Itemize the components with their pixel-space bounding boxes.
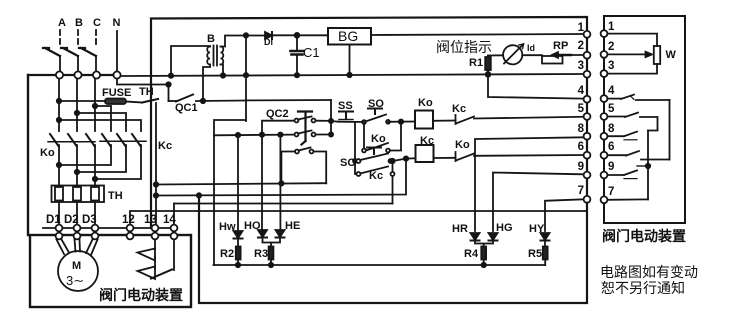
svg-text:HR: HR — [452, 223, 468, 235]
valve actuator right box outline — [604, 16, 685, 223]
lamp diode HR — [471, 233, 480, 240]
wire fuse to TH contact — [126, 102, 142, 103]
contactor Kc main contact 1 — [102, 134, 111, 146]
interlock contact Ko (NC) — [455, 152, 457, 161]
transformer B secondary winding — [221, 47, 224, 65]
linkage bar Ko group — [48, 141, 95, 143]
wire TH down to terminal 13 column — [155, 103, 157, 225]
svg-text:2: 2 — [578, 40, 584, 52]
terminal L8 — [584, 133, 591, 140]
wire Kc output 2 merge — [77, 145, 126, 172]
phase B incoming dashed lead — [77, 30, 79, 44]
wire lamp feed line — [214, 134, 295, 137]
terminal D2 upper — [74, 225, 81, 232]
diode Di — [265, 32, 272, 39]
svg-text:13: 13 — [144, 214, 157, 226]
wire link bus L1 — [156, 183, 326, 184]
wire SC output to Kc coil — [393, 158, 416, 161]
svg-text:Kc: Kc — [369, 170, 383, 182]
left strip numbers — [578, 22, 585, 197]
svg-text:8: 8 — [578, 123, 585, 135]
wire Kc output 1 merge — [59, 145, 111, 165]
phase C incoming dashed lead — [95, 30, 97, 44]
wire selfhold right riser to L3 — [392, 161, 394, 203]
node HO bracket corner — [260, 133, 264, 137]
capacitor C1 — [296, 37, 298, 50]
limit switch row 4 — [608, 98, 622, 100]
svg-text:FUSE: FUSE — [102, 87, 131, 99]
svg-text:Ko: Ko — [455, 139, 470, 151]
svg-text:8: 8 — [608, 123, 615, 135]
main control cabinet box outline — [151, 17, 587, 303]
switch pole stubs — [60, 56, 96, 71]
wire terminal 14 riser — [173, 204, 175, 225]
svg-text:阀门电动装置: 阀门电动装置 — [99, 287, 183, 303]
wire N to QC1 — [117, 79, 169, 101]
svg-text:HE: HE — [285, 220, 300, 232]
phase A incoming dashed lead — [59, 30, 61, 44]
svg-text:HY: HY — [529, 223, 545, 235]
node L2 riser join — [404, 156, 408, 160]
plug line upper terminal row — [43, 227, 177, 229]
potentiometer W body — [654, 46, 660, 64]
svg-text:5: 5 — [608, 103, 615, 115]
fuse FUSE — [105, 99, 126, 105]
switch QC2 pole1 contacts — [295, 119, 299, 123]
node phase A fuse tap — [57, 99, 61, 103]
wire terminal 9 feed and HG drop — [493, 173, 583, 232]
motor M leads — [57, 240, 98, 256]
wire HO lamp drop — [261, 135, 263, 229]
linkage bar Kc group — [100, 140, 146, 142]
wire RP to terminal 2 — [563, 54, 584, 56]
resistor R4 — [481, 247, 486, 260]
node L2 bottom drop — [197, 193, 201, 197]
wire primary bottom lead — [203, 65, 210, 102]
terminal R2 — [601, 51, 608, 58]
svg-text:D2: D2 — [64, 214, 79, 226]
svg-text:恕不另行通知: 恕不另行通知 — [601, 280, 685, 296]
potentiometer W wiper from terminal 2 — [608, 53, 647, 55]
wire terminal 4 feed — [488, 74, 583, 98]
wire SO output — [388, 121, 415, 123]
node crossover C — [93, 104, 97, 108]
svg-text:Di: Di — [264, 37, 273, 47]
svg-text:阀位指示: 阀位指示 — [436, 39, 492, 55]
node Hw tap — [236, 133, 240, 137]
svg-text:9: 9 — [578, 161, 584, 173]
contactor Kc main contact 2 — [117, 134, 126, 146]
limit switch row 8 — [608, 135, 625, 137]
terminal L4 — [584, 96, 591, 103]
node R4 rail — [482, 263, 486, 267]
lamp diode HE — [276, 230, 285, 237]
svg-text:1: 1 — [578, 22, 585, 34]
terminal L5 — [584, 113, 591, 120]
pushbutton SO open — [368, 109, 382, 115]
wire secondary bottom lead — [221, 65, 224, 76]
selfhold contact end circles — [362, 149, 366, 153]
bus wire through supply terminals — [28, 74, 113, 76]
svg-text:RP: RP — [553, 40, 568, 52]
lamp return rail — [214, 264, 546, 266]
node secondary-rail — [221, 73, 225, 77]
wire terminal 8 feed and HR drop — [475, 137, 583, 231]
terminal L1 — [584, 31, 591, 38]
terminal R1 — [601, 30, 608, 37]
node R3 rail — [269, 263, 273, 267]
wire QC1 to transformer primary — [196, 100, 246, 103]
node bracket join — [279, 181, 283, 185]
terminal L2 — [584, 52, 591, 59]
contactor Kc main contact 3 — [132, 134, 141, 146]
terminal D2 lower — [74, 233, 81, 240]
wire crossover B to Kc pole 2 — [77, 113, 126, 131]
svg-text:B: B — [207, 33, 215, 45]
inner bus 2 — [647, 131, 649, 200]
terminal D1 lower — [56, 233, 63, 240]
supply terminal circle B — [74, 71, 81, 78]
node R2 rail — [236, 263, 240, 267]
terminal 14 lower — [171, 233, 178, 240]
pushbutton SC close — [357, 159, 361, 163]
svg-text:1: 1 — [608, 21, 615, 33]
SO contact end circles — [362, 120, 366, 124]
svg-text:4: 4 — [578, 85, 585, 97]
wire QC2 left bracket — [262, 121, 295, 135]
potentiometer W bottom to terminal 3 — [608, 64, 658, 74]
right strip circles 1-7 — [601, 30, 608, 203]
node L1-TH column — [154, 182, 158, 186]
node SO-selfhold join — [399, 120, 403, 124]
knife switch blade phase B — [61, 48, 78, 56]
motor unit box (valve actuator) outline — [30, 235, 191, 307]
wire QC2 pole1 right stub — [316, 120, 332, 122]
terminal R5 — [601, 113, 608, 120]
svg-text:BG: BG — [338, 28, 358, 44]
wire Kc coil to Ko interlock — [434, 157, 456, 159]
wire diode to BG — [272, 34, 328, 36]
wire HE lamp drop — [279, 135, 281, 229]
wire QC2 pole2 right stub — [316, 134, 332, 136]
svg-text:C: C — [93, 17, 101, 29]
limit switch assembly in motor box — [154, 240, 156, 250]
terminal D3 upper — [92, 225, 99, 232]
phase A drop wire — [58, 79, 60, 131]
terminal R4 — [601, 95, 608, 102]
svg-text:SO: SO — [368, 98, 384, 110]
wire to terminal 6 — [474, 154, 584, 157]
transformer B primary winding — [207, 47, 210, 65]
supply terminal circle N — [113, 71, 120, 78]
potentiometer RP — [542, 56, 563, 64]
switch QC2 pole2 contacts — [295, 133, 299, 137]
node SC join — [390, 159, 394, 163]
svg-text:Kc: Kc — [420, 135, 434, 147]
lamp diode HG — [489, 233, 498, 240]
wire link bus L3 — [174, 203, 393, 205]
pushbutton SS stop — [339, 112, 353, 120]
wire BG output to terminal 1 — [371, 34, 583, 35]
svg-text:7: 7 — [608, 186, 614, 198]
supply terminal circle A — [56, 71, 63, 78]
svg-text:Ko: Ko — [40, 147, 55, 159]
wire fuse feed — [59, 100, 105, 102]
svg-text:R5: R5 — [528, 248, 542, 260]
rectifier block BG — [328, 28, 371, 45]
node bus2 row9 — [646, 164, 650, 168]
svg-text:SS: SS — [338, 100, 353, 112]
wire terminal 12 bus — [130, 211, 586, 225]
wires TH to D terminals — [59, 202, 95, 225]
wire QC2 pole3 U bracket — [281, 152, 295, 184]
svg-text:6: 6 — [578, 141, 584, 153]
wire HO HE merge to R3 — [263, 238, 281, 247]
node L2 left — [154, 193, 158, 197]
svg-text:D3: D3 — [82, 214, 97, 226]
contactor Ko main contact 1 — [50, 134, 59, 146]
svg-text:B: B — [75, 17, 83, 29]
svg-text:Hw: Hw — [219, 221, 236, 233]
node pole2 right — [329, 132, 333, 136]
node SS input — [329, 119, 333, 123]
svg-text:R3: R3 — [254, 248, 268, 260]
wire BG bottom lead — [349, 45, 351, 76]
left terminal strip circles 1-7 — [584, 31, 591, 203]
svg-text:Ko: Ko — [371, 133, 386, 145]
wire Ko outputs down — [59, 145, 95, 186]
node R1 bottom — [486, 72, 491, 77]
lamp diode HY — [541, 233, 550, 240]
node DC feed riser top — [244, 33, 248, 37]
terminal L3 — [584, 71, 591, 78]
terminal 12 upper — [127, 225, 134, 232]
thermal contact TH — [142, 99, 158, 103]
QC2 actuator bar — [298, 112, 312, 145]
limit switch row 6 — [608, 154, 627, 156]
resistor R1 — [487, 56, 489, 58]
wire Ko coil to Kc interlock — [433, 120, 456, 122]
meter Id — [503, 45, 522, 64]
wire DC feed riser — [245, 35, 247, 121]
wire crossover A to Kc pole 3 — [59, 120, 141, 131]
limit switch row 5 — [608, 116, 626, 118]
wire primary top lead — [171, 46, 210, 76]
coil Ko — [415, 111, 433, 129]
svg-text:3: 3 — [578, 60, 584, 72]
phase B drop wire — [76, 79, 78, 131]
inner bus 1 — [669, 100, 671, 160]
terminal D3 lower — [92, 233, 99, 240]
node C1 bottom — [295, 73, 299, 77]
contactor Ko main contact 3 — [86, 134, 95, 146]
svg-text:3∼: 3∼ — [66, 273, 84, 288]
coil Kc — [416, 145, 434, 162]
node crossover B — [75, 111, 79, 115]
wire N to rail — [121, 74, 583, 76]
wire HR HG merge to R4 — [475, 241, 493, 247]
terminal R8 — [601, 133, 608, 140]
right strip numbers — [608, 21, 615, 198]
svg-text:阀门电动装置: 阀门电动装置 — [602, 228, 686, 244]
terminal L6 — [584, 152, 591, 159]
svg-text:7: 7 — [578, 185, 584, 197]
svg-text:HG: HG — [496, 222, 513, 234]
auxiliary contact Ko self-hold — [363, 122, 365, 151]
svg-text:HO: HO — [244, 220, 261, 232]
svg-text:2: 2 — [608, 41, 614, 53]
svg-text:W: W — [666, 49, 677, 61]
wire link bus L2 — [156, 158, 406, 195]
svg-text:D1: D1 — [46, 214, 61, 226]
supply terminal circle C — [93, 71, 100, 78]
auxiliary contact Kc self-hold — [358, 167, 388, 175]
terminal R9 — [601, 172, 608, 179]
svg-text:QC2: QC2 — [266, 108, 289, 120]
node HE tap — [278, 133, 282, 137]
wire QC1 line extension to SS node — [246, 99, 331, 101]
svg-text:SC: SC — [340, 157, 355, 169]
node crossover A — [57, 118, 61, 122]
svg-text:C1: C1 — [303, 45, 320, 60]
svg-text:Kc: Kc — [158, 140, 172, 152]
terminal D1 upper — [56, 225, 63, 232]
wire Hw lamp drop — [237, 135, 239, 230]
svg-text:12: 12 — [122, 214, 135, 226]
svg-text:A: A — [58, 17, 66, 29]
svg-text:5: 5 — [578, 103, 585, 115]
terminal R6 — [601, 152, 608, 159]
lamp diode Hw — [234, 231, 243, 238]
svg-text:TH: TH — [139, 86, 154, 98]
svg-text:TH: TH — [108, 190, 123, 202]
svg-text:R1: R1 — [469, 57, 483, 69]
wire SS node riser — [330, 100, 332, 135]
node QC1 input — [166, 82, 170, 86]
wire Kc output 3 merge — [95, 145, 141, 179]
node riser-rail cross — [244, 73, 248, 77]
svg-text:Id: Id — [527, 43, 535, 53]
node DC plus at C1 — [295, 33, 300, 38]
terminal L9 — [584, 172, 591, 179]
left enclosure drop wire — [27, 75, 29, 235]
wire R1 to meter — [488, 54, 503, 56]
svg-text:Ko: Ko — [418, 97, 433, 109]
terminal 13 upper — [152, 225, 159, 232]
svg-text:3: 3 — [608, 60, 614, 72]
wire to terminal 5 — [474, 117, 584, 119]
wire terminal 7 to bus2 — [608, 198, 649, 200]
switch QC2 pole3 contacts — [295, 150, 299, 154]
terminal L7 — [584, 196, 591, 203]
potentiometer W feed from terminal 1 — [608, 34, 658, 46]
resistor R5 — [544, 241, 546, 247]
neutral N incoming lead — [116, 31, 118, 71]
terminal 13 lower — [152, 233, 159, 240]
contactor Ko main contact 2 — [68, 134, 77, 146]
switch QC1 blade — [169, 100, 177, 102]
svg-text:N: N — [113, 17, 121, 29]
svg-text:电路图如有变动: 电路图如有变动 — [600, 264, 698, 280]
svg-text:9: 9 — [608, 161, 614, 173]
terminal 12 lower — [127, 233, 134, 240]
svg-text:M: M — [72, 260, 81, 272]
terminal R7 — [601, 196, 608, 203]
knife switch blade phase A — [43, 48, 60, 56]
knife switch blade phase C — [79, 48, 96, 56]
wire SC branch feed drop — [354, 122, 356, 174]
lamp diode HO — [258, 230, 267, 237]
terminal 14 upper — [171, 225, 178, 232]
svg-text:4: 4 — [608, 85, 615, 97]
svg-text:Kc: Kc — [452, 103, 466, 115]
svg-text:14: 14 — [163, 214, 176, 226]
terminal R3 — [601, 70, 608, 77]
resistor R3 — [269, 247, 274, 260]
node BG-rail — [347, 73, 351, 77]
svg-text:R4: R4 — [464, 248, 479, 260]
node transformer primary bottom — [201, 99, 205, 103]
thermal overload TH heater block — [52, 186, 105, 203]
wire terminal 7 feed and HY drop — [545, 199, 583, 231]
wire meter to RP — [522, 54, 542, 56]
svg-text:6: 6 — [608, 141, 614, 153]
svg-text:R2: R2 — [220, 248, 234, 260]
motor M 3-phase — [58, 251, 98, 291]
interlock contact Kc (NC) — [455, 115, 457, 124]
wire secondary top lead to diode — [221, 36, 266, 47]
transformer B core — [214, 46, 218, 66]
svg-text:QC1: QC1 — [175, 102, 198, 114]
node primary-rail — [169, 74, 173, 78]
wire DC feed elbow and lamp riser — [214, 120, 246, 265]
wire SS line — [331, 120, 338, 123]
phase C drop wire — [94, 79, 96, 131]
resistor R2 — [237, 239, 239, 247]
wire crossover C to Kc pole 1 — [95, 106, 111, 131]
limit switch row 9 — [608, 174, 625, 176]
